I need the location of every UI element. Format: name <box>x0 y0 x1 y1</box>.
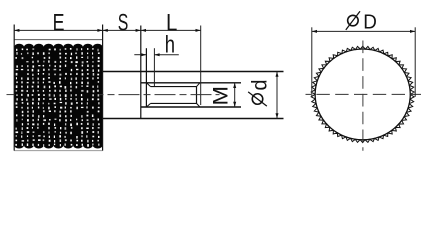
label d <box>249 79 272 90</box>
svg-text:D: D <box>363 11 377 34</box>
end view: knurled rim teeth <box>311 46 414 142</box>
thread start face / h extension line <box>145 48 147 107</box>
svg-text:d: d <box>249 79 272 90</box>
dimension D extension lines <box>312 27 415 97</box>
svg-text:h: h <box>165 31 175 58</box>
dimension S line <box>103 29 141 31</box>
dimension E <box>14 29 102 31</box>
end view horizontal centerline <box>306 93 422 95</box>
side view centerline <box>7 94 220 96</box>
thread outer diameter lines (continue as M extension lines) <box>141 83 241 107</box>
dimension M line <box>234 83 236 107</box>
thread start chamfers <box>146 83 150 107</box>
L right extension line <box>200 26 202 106</box>
side view: knurled head outline top/bottom <box>14 40 102 151</box>
dimension D line <box>312 30 415 32</box>
diameter symbol of D label <box>346 11 360 30</box>
label L <box>166 9 177 36</box>
dimension L line <box>141 29 201 31</box>
h second extension line <box>153 48 155 86</box>
head side edges / E extension lines <box>14 25 102 151</box>
text labels (grayscale AA via opacity) <box>53 9 377 106</box>
shoulder cylinder top/bottom (continue as diameter-d extension lines) <box>103 72 284 119</box>
end view: head body circle <box>315 49 410 140</box>
label D <box>363 11 377 34</box>
thread end chamfers <box>197 83 200 107</box>
thread minor diameter lines <box>151 87 197 104</box>
end view vertical centerline <box>362 41 364 151</box>
dimension d line <box>276 72 278 119</box>
knurl texture speckles <box>15 48 99 147</box>
svg-text:E: E <box>53 10 65 36</box>
svg-text:S: S <box>118 11 129 37</box>
shoulder right face / S-L extension line <box>140 26 142 119</box>
knurled head silhouette <box>14 47 102 145</box>
label h <box>165 31 175 58</box>
label S <box>118 11 129 37</box>
thread end face <box>196 86 198 104</box>
svg-text:M: M <box>208 86 232 106</box>
label M <box>208 86 232 106</box>
label E <box>53 10 65 36</box>
diameter symbol of d label <box>248 92 267 106</box>
dimension h leaders <box>134 54 179 56</box>
